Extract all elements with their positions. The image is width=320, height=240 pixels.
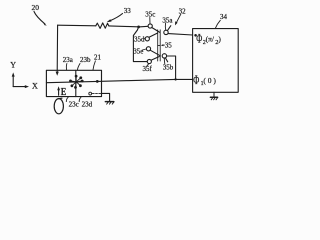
vibrator box 21	[46, 70, 101, 96]
label 33	[107, 7, 132, 22]
svg-text:35f: 35f	[143, 65, 153, 73]
label 35e	[133, 48, 146, 56]
label 35a	[162, 16, 173, 30]
label 32 with arrow	[175, 8, 186, 26]
svg-text:(π/: (π/	[206, 35, 215, 44]
switch contact 35f	[147, 59, 151, 63]
switch contact 35c	[148, 24, 152, 28]
vibration star	[70, 75, 84, 88]
switch contact 35d	[145, 37, 149, 41]
box 34	[193, 29, 239, 93]
switch contact 35b	[162, 54, 166, 58]
svg-text:35d: 35d	[134, 35, 145, 43]
switch arm from 35b	[165, 58, 167, 62]
label 23b	[78, 56, 92, 70]
label 20	[32, 3, 47, 26]
label 35c	[145, 11, 155, 24]
label 21	[93, 54, 102, 70]
switch arm from 35e	[150, 50, 160, 56]
svg-text:Φ: Φ	[196, 33, 202, 46]
svg-text:35c: 35c	[145, 11, 155, 19]
terminal o---	[89, 92, 92, 95]
svg-text:35: 35	[165, 41, 173, 49]
svg-text:33: 33	[124, 7, 132, 15]
svg-text:23d: 23d	[82, 101, 93, 109]
coordinate axis	[10, 61, 38, 91]
switch arm from 35c	[152, 28, 160, 33]
ground under box 34	[210, 92, 217, 100]
wire bridge output to lower junction	[99, 79, 176, 81]
label 23c	[66, 97, 78, 108]
text phi2(pi/2)	[196, 33, 221, 46]
label 23d	[79, 97, 92, 108]
svg-text:20: 20	[32, 3, 40, 12]
label 35b	[163, 58, 174, 71]
svg-text:35a: 35a	[162, 16, 173, 24]
svg-text:35e: 35e	[133, 48, 143, 56]
electrode divider horizontal	[46, 81, 97, 82]
node top junction	[137, 26, 140, 29]
E field arrow	[57, 86, 66, 98]
svg-text:Y: Y	[10, 61, 16, 70]
svg-text:34: 34	[220, 13, 228, 21]
label 23a	[63, 56, 74, 70]
svg-text:35b: 35b	[163, 63, 174, 71]
switch contact 35e	[146, 47, 150, 51]
wire top-left corner and feedback line	[58, 24, 96, 27]
wire 35b to box 34 lower input	[167, 56, 193, 79]
svg-text:E: E	[61, 87, 67, 98]
text phi1(0)	[193, 74, 216, 87]
resistor 33	[96, 23, 109, 29]
svg-text:23a: 23a	[63, 56, 74, 64]
wire resistor to junction	[109, 25, 138, 28]
label 35d	[134, 35, 145, 43]
svg-text:X: X	[32, 82, 38, 91]
svg-text:( 0 ): ( 0 )	[203, 76, 216, 85]
switch arm from 35a	[167, 26, 170, 31]
node lower junction	[174, 78, 176, 80]
svg-text:21: 21	[94, 54, 102, 62]
gang link bar	[158, 30, 161, 61]
orbit ellipse below box	[54, 99, 63, 114]
svg-text:23b: 23b	[80, 56, 91, 64]
wire left vertical down to vibrator box	[56, 25, 58, 72]
wire to ground from box right	[102, 93, 110, 101]
switch arm from 35d	[149, 33, 158, 37]
svg-text:32: 32	[179, 8, 187, 16]
svg-text:23c: 23c	[69, 101, 79, 109]
switch contact 35a	[164, 30, 168, 34]
wire junction down to contact 35f	[133, 27, 147, 62]
wire junction to contact 35c	[139, 25, 148, 28]
label 35 with arrow	[161, 41, 173, 49]
wire 35a to box 34	[168, 34, 193, 35]
label 34	[215, 13, 227, 28]
node at phi2 input	[194, 34, 197, 37]
switch arm from 35f	[151, 57, 159, 61]
ground near vibrator	[105, 102, 114, 105]
label 35f	[143, 64, 153, 73]
svg-text:Φ: Φ	[193, 74, 199, 87]
electrode divider vertical	[75, 70, 77, 96]
node bridge output	[96, 80, 99, 83]
